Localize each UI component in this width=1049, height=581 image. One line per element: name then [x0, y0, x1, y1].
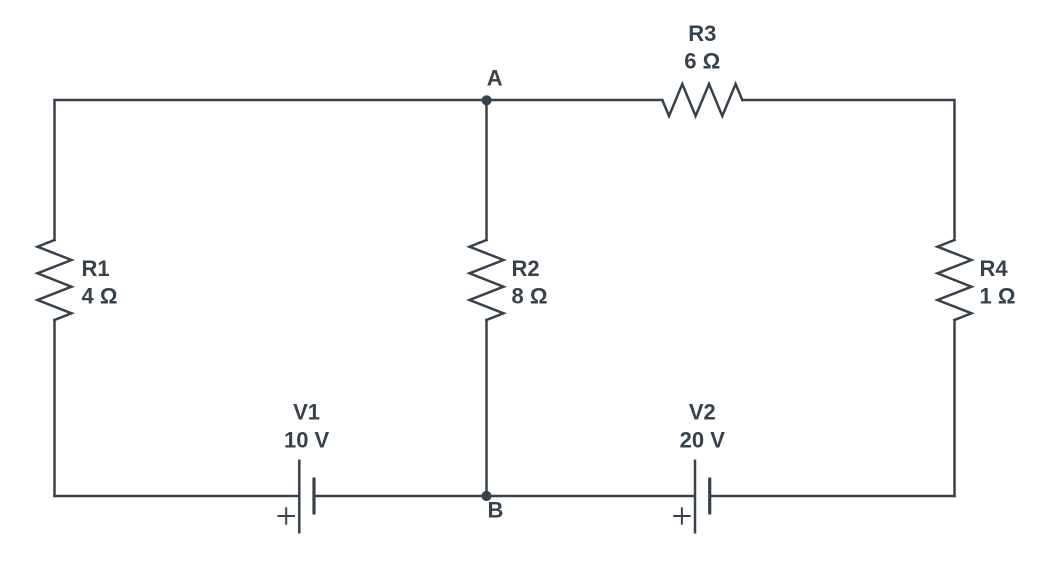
svg-text:1 Ω: 1 Ω: [980, 284, 1016, 309]
resistor R4: [938, 240, 972, 320]
svg-text:20 V: 20 V: [680, 427, 726, 452]
wire bottom-left to battery V1: [55, 495, 299, 498]
wire left bottom lead: [53, 320, 56, 496]
svg-text:B: B: [488, 498, 504, 523]
svg-text:6 Ω: 6 Ω: [684, 49, 720, 74]
wire top from R3 to top-right corner: [742, 100, 954, 240]
svg-text:R3: R3: [688, 21, 716, 46]
svg-text:R1: R1: [82, 256, 110, 281]
battery V1 positive plate: [298, 460, 301, 534]
node A junction dot: [482, 95, 492, 105]
wire right bottom lead: [953, 320, 956, 496]
svg-text:A: A: [487, 66, 503, 91]
svg-text:V1: V1: [293, 400, 320, 425]
battery V2 plus sign: [673, 507, 691, 524]
wire middle from R2 to node B: [485, 320, 488, 496]
battery V2 negative plate: [708, 478, 711, 515]
wire from V1 to node B to V2: [315, 495, 693, 498]
resistor R2: [470, 240, 504, 320]
svg-text:10 V: 10 V: [284, 427, 330, 452]
resistor R3: [662, 84, 742, 116]
svg-text:4 Ω: 4 Ω: [82, 284, 118, 309]
battery V1 plus sign: [278, 507, 296, 524]
wire top-left from left corner to node A: [55, 100, 487, 240]
battery V1 negative plate: [312, 478, 315, 515]
svg-text:8 Ω: 8 Ω: [512, 284, 548, 309]
node B junction dot: [481, 491, 491, 501]
wire top from node A to R3: [487, 99, 663, 102]
svg-text:V2: V2: [689, 400, 716, 425]
resistor R1: [38, 240, 72, 320]
wire middle from node A to R2: [485, 100, 488, 240]
wire from V2 to bottom-right corner: [711, 495, 955, 498]
battery V2 positive plate: [694, 460, 697, 534]
svg-text:R4: R4: [980, 256, 1009, 281]
svg-text:R2: R2: [512, 256, 540, 281]
